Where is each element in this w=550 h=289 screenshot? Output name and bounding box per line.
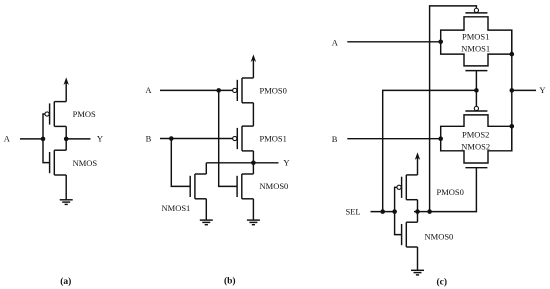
wire VDD supply [252,58,254,78]
figure (b) two-input gate [145,54,289,286]
VDD arrow [415,152,420,160]
transistor PMOS0 [397,175,418,200]
svg-text:NMOS: NMOS [73,158,98,168]
svg-text:NMOS0: NMOS0 [260,181,289,191]
wire SEL to PMOS0 gate [395,187,397,211]
ground [60,200,73,205]
transistor NMOS0 [237,174,253,199]
svg-text:B: B [332,134,338,144]
wire SEL horizontal to mid node [383,90,477,211]
wire NMOS drain to output [65,139,67,150]
nmos NMOS0 drain arm [406,221,417,223]
node Y junction [251,161,256,166]
transistor PMOS [45,102,66,127]
pmos PMOS0 gate bar [401,177,403,198]
VDD arrow [251,54,256,62]
wire NMOS0 drain to Y [252,163,254,174]
transistor PMOS1 [233,126,254,151]
svg-text:PMOS0: PMOS0 [260,85,287,95]
wire PMOS1 drain to output [252,151,254,163]
wire B input [160,138,233,140]
nmos NMOS0 channel [405,222,407,247]
pmos PMOS0 source arm [406,174,417,176]
svg-text:B: B [146,133,152,143]
wire output Y [66,138,90,140]
wire A input [160,89,233,91]
svg-text:PMOS1: PMOS1 [462,32,489,42]
pmos PMOS0 gate bar [236,80,238,101]
ground [411,270,424,275]
svg-text:(b): (b) [224,276,236,287]
wire NMOS0 drain to SELB [417,212,419,223]
svg-text:Y: Y [97,134,103,144]
transmission gate PMOS1/NMOS1 body [441,17,512,66]
pmos PMOS0 drain arm [242,102,253,104]
wire SEL input [371,211,397,213]
figure (c) 2-to-1 multiplexer [332,6,546,288]
wire NMOS1 source to ground [205,199,207,220]
wire PMOS drain to output [65,126,67,138]
wire PMOS0 drain to PMOS1 source [252,103,254,126]
pmos PMOS drain arm [54,125,66,127]
node SEL gate junction [392,209,397,214]
wire VDD supply [65,81,67,102]
node A junction at TG1 [438,40,443,45]
nmos NMOS1 gate bar [189,176,191,197]
pmos PMOS source arm [54,101,66,103]
nmos NMOS drain arm [54,149,66,151]
svg-text:PMOS2: PMOS2 [462,129,489,139]
pmos PMOS0 bubble [397,185,401,189]
node Y junction [64,137,69,142]
node SEL mid junction [474,88,479,93]
wire PMOS0 drain to SELB [417,200,419,212]
svg-text:NMOS1: NMOS1 [461,43,490,53]
wire NMOS1 gate to mid node [475,71,477,91]
nmos gate bar NMOS2 [465,167,487,169]
wire B to NMOS1 gate [171,139,190,187]
wire NMOS1 drain to Y [205,163,207,174]
transistor NMOS1 [190,174,206,199]
pmos PMOS channel [53,102,55,127]
wire A input [347,41,440,43]
wire B input [347,138,440,140]
nmos NMOS0 source arm [242,198,254,200]
nmos NMOS0 gate bar [236,176,238,197]
transistor NMOS0 [402,222,418,247]
pmos PMOS0 bubble [233,88,237,92]
svg-text:A: A [145,85,152,95]
pmos PMOS1 source arm [242,125,253,127]
nmos NMOS1 drain arm [195,173,206,175]
wire VDD supply [417,156,419,175]
wire inverter output segment [414,211,430,213]
transistor PMOS0 [233,78,254,103]
pmos PMOS0 source arm [242,77,253,79]
nmos NMOS0 channel [241,174,243,199]
svg-text:SEL: SEL [345,206,360,216]
wire output Y rail [206,162,278,164]
nmos NMOS channel [53,150,55,175]
pmos PMOS1 bubble [233,136,237,140]
wire output right rail [511,30,513,151]
wire gate to NMOS [43,139,50,163]
nmos NMOS0 gate bar [401,224,403,245]
pmos PMOS1 drain arm [242,150,253,152]
node A junction [216,88,221,93]
node B junction [169,136,174,141]
svg-text:PMOS: PMOS [73,109,96,119]
nmos NMOS source arm [54,174,66,176]
pmos PMOS bubble [45,112,49,116]
pmos PMOS1 gate bar [236,128,238,149]
transmission gate TG1 [441,8,512,70]
transistor NMOS [50,150,67,175]
pmos PMOS1 channel [241,126,243,151]
ground NMOS1 [200,220,213,225]
nmos NMOS0 drain arm [242,173,254,175]
pmos PMOS0 channel [405,175,407,200]
nmos NMOS gate bar [49,152,51,173]
svg-text:NMOS2: NMOS2 [461,141,490,151]
VDD arrow [64,77,69,85]
wire SELB top route to PMOS1 gate [430,6,477,212]
node TG2 drain junction [510,124,515,129]
pmos gate bubble PMOS2 [474,106,478,110]
wire output Y [512,89,536,91]
pmos PMOS0 drain arm [406,199,417,201]
svg-text:A: A [4,134,11,144]
node SELB inverter output junction [415,209,420,214]
svg-text:NMOS0: NMOS0 [425,232,454,242]
wire NMOS source to ground [65,175,67,200]
node B junction at TG2 [438,136,443,141]
svg-text:(c): (c) [437,277,448,288]
node SEL junction left [380,209,385,214]
pmos gate bar PMOS2 [465,110,487,112]
node TG1 drain junction [510,52,515,57]
pmos PMOS0 channel [241,78,243,103]
nmos gate bar NMOS1 [465,70,487,72]
wire NMOS0 source to ground [417,247,419,270]
wire gate to PMOS [43,114,45,139]
nmos NMOS1 source arm [195,198,206,200]
svg-text:PMOS0: PMOS0 [437,187,464,197]
pmos gate bar PMOS1 [465,12,487,14]
wire A to NMOS0 gate [219,90,237,186]
nmos NMOS0 source arm [406,246,417,248]
wire NMOS0 source to ground [252,199,254,220]
transmission gate TG2 [441,106,512,167]
wire A input [20,138,43,140]
pmos PMOS gate bar [49,103,51,124]
node Y junction [510,88,515,93]
node SELB junction right [427,209,432,214]
ground NMOS0 [247,220,260,225]
nmos NMOS1 channel [194,174,196,199]
svg-text:NMOS1: NMOS1 [162,203,191,213]
figure (a) inverter [4,77,103,287]
svg-text:A: A [332,37,339,47]
node A junction [41,137,46,142]
transmission gate PMOS2/NMOS2 body [441,115,512,163]
wire SEL to NMOS0 gate [395,212,402,235]
svg-text:PMOS1: PMOS1 [260,133,287,143]
wire NMOS2 gate down route [430,168,477,212]
wire mid node to PMOS2 gate [475,90,477,106]
svg-text:Y: Y [539,85,545,95]
svg-text:Y: Y [283,158,289,168]
svg-text:(a): (a) [60,276,71,287]
pmos gate bubble PMOS1 [474,8,478,12]
